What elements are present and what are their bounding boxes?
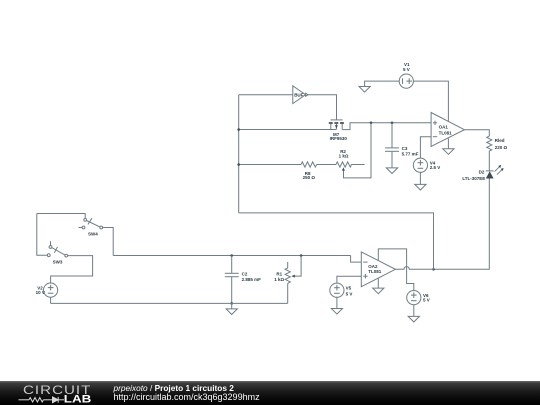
svg-text:BUF: BUF [294, 92, 303, 97]
node junction C3 tap [391, 122, 394, 125]
svg-text:2.885 mF: 2.885 mF [242, 277, 262, 282]
capacitor C3 [385, 123, 419, 168]
node junction C2 top [230, 254, 233, 257]
ground below OA2 [373, 288, 384, 294]
voltage source V4 [413, 158, 440, 172]
wire OA2 V+ stub to V6 [378, 249, 414, 291]
node junction left rail / R8 [237, 163, 240, 166]
wire mid rail [113, 255, 350, 257]
resistor R8 [301, 162, 317, 180]
wire V1 minus to ground [365, 81, 400, 86]
ground below V4 [415, 184, 426, 190]
wire Rled to D2 [488, 151, 490, 171]
wire V5 to ground [336, 297, 338, 309]
wire C2 to ground [231, 303, 233, 309]
svg-text:1 kΩ: 1 kΩ [339, 154, 349, 159]
svg-text:10 V: 10 V [36, 290, 45, 295]
voltage source V1 [399, 62, 413, 88]
svg-text:TL081: TL081 [439, 130, 453, 135]
svg-text:IRF9530: IRF9530 [330, 136, 348, 141]
banner title [114, 383, 234, 393]
wire D2 down right side [434, 179, 490, 270]
svg-text:250 Ω: 250 Ω [303, 175, 316, 180]
op-amp OA1 [431, 113, 464, 147]
svg-text:5 V: 5 V [423, 298, 430, 303]
wire V4 to ground [419, 172, 421, 185]
wire SW4 common to mid rail [103, 228, 114, 256]
wire V2 plus up [51, 256, 93, 283]
svg-text:TL081: TL081 [368, 269, 382, 274]
wire OA2 - input step [351, 256, 362, 263]
node junction C2 bottom [230, 302, 233, 305]
wire left rail to R8 [239, 164, 301, 166]
svg-text:OA2: OA2 [368, 264, 378, 269]
wire OA1 - input to V4 [420, 137, 431, 159]
wire M7 drain to OA1 + [342, 123, 431, 130]
logo resistor [29, 398, 43, 402]
wire V2 minus to bottom rail [50, 297, 52, 303]
svg-text:R1: R1 [276, 272, 282, 277]
svg-text:V5: V5 [346, 285, 352, 290]
buffer BUF [293, 86, 308, 104]
svg-text:C3: C3 [402, 146, 408, 151]
svg-text:Rled: Rled [495, 138, 505, 143]
resistor Rled [487, 136, 508, 151]
wire left rail [238, 95, 240, 213]
ground below V5 [331, 309, 342, 315]
resistor R2 potentiometer [336, 123, 371, 178]
svg-text:SW3: SW3 [53, 259, 63, 264]
ground at V1 [359, 87, 370, 93]
svg-text:C2: C2 [242, 272, 248, 277]
svg-text:1 kΩ: 1 kΩ [274, 277, 284, 282]
ground below OA1 [443, 149, 454, 155]
svg-text:OA1: OA1 [439, 125, 449, 130]
wire top to buffer input [239, 94, 293, 96]
wire buffer output to gate [308, 95, 336, 120]
wire OA1 V+ stub to V1 [413, 81, 448, 121]
node junction output/feed [432, 268, 435, 271]
svg-text:5 V: 5 V [403, 67, 410, 72]
svg-text:5.77 mF: 5.77 mF [402, 151, 419, 156]
ground below C2 [226, 309, 237, 315]
logo diode [53, 397, 59, 403]
voltage source V5 [330, 283, 353, 297]
wire V6 to ground [413, 305, 415, 317]
logo wire [58, 399, 64, 401]
svg-text:D2: D2 [479, 170, 485, 175]
svg-text:2.5 V: 2.5 V [430, 165, 441, 170]
svg-text:LTL-307EE: LTL-307EE [462, 176, 485, 181]
wire R8 to R2 [317, 164, 336, 166]
op-amp OA2 [361, 252, 395, 287]
svg-text:LAB: LAB [64, 393, 92, 405]
ground below C3 [386, 168, 397, 174]
wire OA1 V- stub [447, 139, 449, 149]
wire OA2 V- stub [377, 278, 379, 288]
wire OA1 output to Rled [464, 130, 489, 136]
wire feedback top rail [239, 213, 434, 269]
LED D2 [462, 165, 503, 181]
resistor R1 potentiometer [274, 256, 301, 304]
wire top left to SW4 [37, 214, 85, 219]
svg-text:220 Ω: 220 Ω [495, 145, 508, 150]
voltage source V2 [36, 283, 58, 297]
capacitor C2 [225, 256, 261, 304]
wire OA2 + input to V5 [337, 276, 361, 283]
wire source/body rail [239, 129, 337, 131]
node junction R1 wiper [300, 254, 303, 257]
switch SW4 [79, 218, 103, 236]
transistor M7 [329, 120, 348, 141]
switch SW3 [47, 241, 67, 264]
node junction left rail / M7 [237, 128, 240, 131]
wire bottom rail [51, 302, 288, 304]
voltage source V6 [407, 291, 430, 305]
footer banner [0, 381, 540, 405]
wire OA2 output with hop [395, 267, 433, 270]
ground below V6 [408, 316, 419, 322]
CircuitLab logo [23, 383, 91, 397]
logo wire [43, 399, 52, 401]
logo wire [19, 399, 30, 401]
node junction R2 tap [370, 122, 373, 125]
svg-text:SW4: SW4 [88, 231, 98, 236]
wire SW3 left to rail [37, 214, 48, 256]
svg-text:5 V: 5 V [346, 291, 353, 296]
